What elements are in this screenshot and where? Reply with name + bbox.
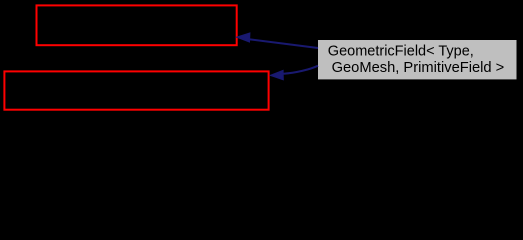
edge: GeometricField to box 1 (wire): [250, 39, 318, 48]
node: GeometricField (grey filled): [318, 40, 517, 79]
svg-text:GeoMesh, PrimitiveField >: GeoMesh, PrimitiveField >: [332, 60, 505, 76]
arrowhead at box 1: [237, 33, 250, 42]
arrowhead at box 2: [270, 70, 283, 79]
node: base class box 1 (red outline, label hidden): [37, 5, 237, 45]
svg-text:GeometricField< Type,: GeometricField< Type,: [328, 44, 474, 60]
node: base class box 2 (red outline, label hidden): [4, 71, 268, 109]
edge: GeometricField to box 2 (wire): [284, 66, 319, 74]
